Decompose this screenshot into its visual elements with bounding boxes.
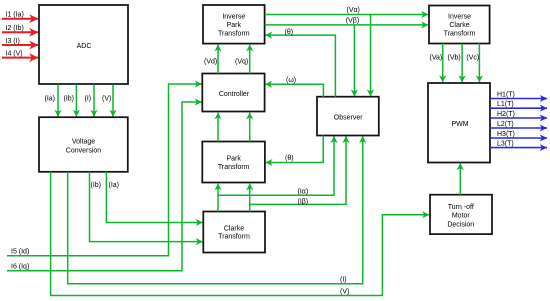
svg-text:Park: Park [227, 22, 242, 29]
output arrow H3(T) [490, 131, 547, 138]
svg-text:(Ia): (Ia) [109, 182, 120, 189]
block Inverse Park Transform [203, 5, 265, 44]
wire (theta) Observer to Inverse Park [266, 29, 336, 97]
wire (Ib) ADC to Voltage Conversion [64, 85, 77, 117]
wire q-axis Park to Controller [249, 113, 251, 142]
svg-text:(Vβ): (Vβ) [346, 17, 359, 24]
svg-text:Motor: Motor [452, 213, 471, 220]
svg-text:L1(T): L1(T) [497, 101, 514, 108]
block Park Transform [202, 142, 265, 183]
svg-text:(Ib): (Ib) [64, 96, 75, 103]
wire I5 (Id) to Controller [7, 84, 202, 256]
wire (omega) Observer to Controller [266, 77, 324, 97]
output arrow L2(T) [490, 121, 547, 128]
svg-text:I4 (V): I4 (V) [6, 50, 23, 57]
block Inverse Clarke Transform [429, 6, 490, 44]
svg-text:ADC: ADC [77, 43, 92, 50]
svg-text:(θ): (θ) [285, 29, 294, 36]
svg-text:Transform: Transform [218, 164, 250, 171]
input arrow I2 (Ib) [2, 25, 38, 32]
svg-text:(Ib): (Ib) [91, 182, 102, 189]
svg-text:(Iα): (Iα) [298, 189, 309, 196]
wire (Ia) Voltage Conversion to Clarke Transform [106, 172, 202, 223]
input arrow I1 (Ia) [2, 12, 38, 19]
wire (Va) Inverse Clarke to PWM [430, 44, 443, 83]
wire (Vc) Inverse Clarke to PWM [466, 44, 479, 83]
wire (Ibeta) branch to Observer [250, 136, 346, 205]
wire (Vbeta) Inverse Park to Inverse Clarke [265, 17, 428, 25]
wire (Valpha) branch down to Observer [370, 15, 372, 97]
svg-text:Clarke: Clarke [449, 22, 469, 29]
wire (Ia) ADC to Voltage Conversion [45, 85, 59, 117]
svg-text:Transform: Transform [218, 234, 250, 241]
svg-text:Turn -off: Turn -off [448, 204, 474, 211]
block Voltage Conversion [39, 117, 128, 172]
wire (Valpha) Inverse Park to Inverse Clarke [265, 7, 428, 15]
output arrow H1(T) [490, 91, 547, 98]
svg-text:(Va): (Va) [430, 55, 443, 62]
svg-text:(I): (I) [340, 277, 347, 284]
svg-text:(I): (I) [85, 96, 92, 103]
wire Ibeta Clarke to Park [249, 184, 251, 212]
svg-text:I1 (Ia): I1 (Ia) [6, 12, 24, 19]
svg-text:(Iβ): (Iβ) [298, 199, 309, 206]
svg-text:(Ia): (Ia) [45, 96, 56, 103]
wire (Vq) Controller to Inverse Park [235, 45, 250, 74]
block Observer [317, 97, 379, 136]
wire (I) ADC to Voltage Conversion [85, 85, 95, 117]
svg-text:(Vc): (Vc) [466, 55, 479, 62]
block PWM [428, 83, 490, 163]
svg-text:Inverse: Inverse [222, 13, 245, 20]
block Clarke Transform [203, 212, 265, 253]
wire (Ib) Voltage Conversion to Clarke Transform [90, 172, 203, 242]
svg-text:Inverse: Inverse [448, 13, 471, 20]
svg-text:Decision: Decision [447, 222, 474, 229]
svg-text:Transform: Transform [444, 31, 476, 38]
svg-text:(V): (V) [340, 289, 349, 296]
output arrow L3(T) [490, 141, 547, 148]
svg-text:(V): (V) [102, 96, 111, 103]
svg-text:(Vq): (Vq) [235, 58, 248, 65]
block ADC [39, 5, 128, 84]
svg-text:H3(T): H3(T) [497, 131, 515, 138]
svg-text:L3(T): L3(T) [497, 141, 514, 148]
svg-text:(Vb): (Vb) [448, 55, 461, 62]
wire (Vb) Inverse Clarke to PWM [448, 44, 463, 83]
wire I6 (Iq) to Controller [7, 102, 202, 271]
output arrow L1(T) [490, 101, 547, 108]
svg-text:Clarke: Clarke [224, 225, 244, 232]
svg-text:Voltage: Voltage [72, 139, 95, 146]
input arrow I4 (V) [2, 50, 38, 57]
wire (V) ADC to Voltage Conversion [102, 85, 113, 117]
svg-text:Transform: Transform [218, 31, 250, 38]
block Controller [202, 74, 264, 112]
output arrow H2(T) [490, 111, 547, 118]
wire (Ialpha) branch to Observer [218, 136, 334, 195]
wire (Vbeta) branch down to Observer [353, 25, 355, 96]
input arrow I3 (I) [2, 38, 38, 45]
svg-text:PWM: PWM [451, 121, 468, 128]
wire (theta) Observer to Park [266, 136, 323, 163]
wire Ialpha Clarke to Park [217, 184, 219, 212]
svg-text:(Vα): (Vα) [347, 7, 360, 14]
svg-text:(Vd): (Vd) [204, 58, 217, 65]
wire Turn-off Motor Decision to PWM [459, 163, 461, 194]
wire (I) Voltage Conversion to Observer [68, 136, 363, 283]
svg-text:H1(T): H1(T) [497, 91, 515, 98]
svg-text:I2 (Ib): I2 (Ib) [6, 25, 24, 32]
svg-text:I5 (Id): I5 (Id) [11, 248, 29, 255]
svg-text:Park: Park [226, 155, 241, 162]
svg-text:I3 (I): I3 (I) [6, 38, 20, 45]
svg-text:Conversion: Conversion [66, 147, 102, 154]
svg-text:(θ): (θ) [285, 155, 294, 162]
wire (V) Voltage Conversion to Turn-off Motor Decision [51, 172, 429, 296]
svg-text:H2(T): H2(T) [497, 111, 515, 118]
svg-text:(ω): (ω) [286, 77, 296, 84]
svg-text:Observer: Observer [334, 114, 363, 121]
block Turn-off Motor Decision [430, 195, 492, 234]
svg-text:I6 (Iq): I6 (Iq) [11, 263, 29, 270]
svg-text:Controller: Controller [219, 91, 250, 98]
svg-text:L2(T): L2(T) [497, 121, 514, 128]
wire d-axis Park to Controller [217, 113, 219, 142]
wire (Vd) Controller to Inverse Park [204, 45, 218, 74]
